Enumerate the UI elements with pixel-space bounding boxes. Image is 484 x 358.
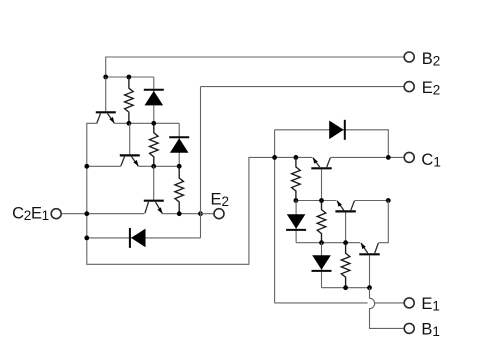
node R1c bbox=[386, 155, 391, 160]
wire B1 drop with hop bbox=[370, 288, 405, 329]
node A2 bbox=[126, 75, 131, 80]
node C1n bbox=[84, 164, 89, 169]
node rail-D3 bbox=[84, 236, 89, 241]
wire Q2 collector stub bbox=[87, 165, 121, 167]
node B2n bbox=[151, 121, 156, 126]
wire row3 bbox=[296, 242, 360, 244]
wire B2 top rail bbox=[106, 57, 405, 77]
resistor R4 bbox=[292, 157, 301, 200]
diode D6 bbox=[312, 243, 332, 288]
wire node-A row bbox=[106, 76, 154, 78]
node R3b bbox=[343, 240, 348, 245]
node C3n bbox=[177, 164, 182, 169]
resistor R5 bbox=[317, 201, 326, 243]
diode D4 bbox=[329, 120, 345, 140]
wire row2 right bbox=[354, 200, 388, 202]
node D1n bbox=[84, 211, 89, 216]
node R2c bbox=[386, 198, 391, 203]
wire row1 right bbox=[330, 156, 404, 158]
node R4a bbox=[343, 285, 348, 290]
node R3a bbox=[319, 240, 324, 245]
svg-text:C2E1: C2E1 bbox=[12, 205, 49, 224]
transistor Q3 base lead bbox=[153, 166, 155, 199]
svg-text:B1: B1 bbox=[421, 320, 440, 339]
node C2n bbox=[151, 164, 156, 169]
transistor Q4 base lead bbox=[321, 169, 323, 200]
terminal E1 bbox=[404, 298, 414, 308]
transistor Q2 bbox=[120, 155, 140, 166]
wire D3 row bbox=[87, 237, 201, 239]
svg-text:E2: E2 bbox=[211, 191, 230, 210]
transistor Q5 base lead bbox=[345, 213, 347, 243]
terminal B2 bbox=[404, 52, 414, 62]
node R2b bbox=[319, 198, 324, 203]
transistor Q4 bbox=[311, 157, 331, 168]
wire E1 right bbox=[374, 302, 404, 304]
wire left rail bbox=[87, 123, 275, 264]
node A1 bbox=[103, 75, 108, 80]
terminal C2E1 bbox=[51, 209, 61, 219]
transistor Q1 base lead bbox=[105, 77, 107, 111]
terminal E2 mid bbox=[214, 209, 224, 219]
wire E1 left bbox=[275, 302, 368, 304]
wire row1 left bbox=[275, 156, 313, 158]
wire E2 vertical bbox=[200, 87, 202, 238]
wire D4 top loop bbox=[275, 130, 389, 158]
wire right inner rail bbox=[274, 130, 276, 303]
svg-text:C1: C1 bbox=[421, 151, 440, 170]
transistor Q3 bbox=[144, 201, 164, 214]
node B1n bbox=[126, 121, 131, 126]
wire row4 bbox=[322, 287, 370, 289]
node D2n bbox=[177, 211, 182, 216]
wire row2 left bbox=[296, 200, 337, 202]
transistor Q5 bbox=[335, 201, 355, 212]
wire Q3 emitter row bbox=[162, 213, 201, 215]
wire E2 upper rail bbox=[201, 86, 405, 88]
transistor Q6 bbox=[359, 243, 379, 255]
terminal C1 bbox=[404, 152, 414, 162]
diode D1 bbox=[144, 77, 164, 123]
node R1a bbox=[272, 155, 277, 160]
node R2a bbox=[294, 198, 299, 203]
wire row3 right bbox=[378, 201, 388, 243]
terminal B1 bbox=[404, 323, 414, 333]
node R4b bbox=[367, 285, 372, 290]
node R1b bbox=[294, 155, 299, 160]
transistor Q1 bbox=[96, 112, 116, 123]
diode D3 bbox=[130, 228, 146, 248]
resistor R2 bbox=[150, 123, 159, 166]
wire C2E1 row left bbox=[61, 213, 144, 215]
resistor R1 bbox=[125, 77, 134, 123]
resistor R3 bbox=[175, 166, 184, 213]
diode D2 bbox=[169, 123, 189, 166]
diode D5 bbox=[286, 201, 306, 243]
svg-text:E1: E1 bbox=[421, 295, 440, 314]
wire Q1 emitter row bbox=[114, 122, 179, 124]
wire E2 stub bbox=[201, 213, 214, 215]
transistor Q2 base lead bbox=[129, 123, 131, 154]
svg-text:B2: B2 bbox=[422, 50, 441, 69]
node D3n bbox=[198, 211, 203, 216]
terminal E2 top bbox=[404, 82, 414, 92]
svg-text:E2: E2 bbox=[422, 79, 441, 98]
wire Q2 emitter row bbox=[138, 165, 179, 167]
transistor Q6 base lead bbox=[369, 255, 371, 287]
resistor R6 bbox=[341, 243, 350, 288]
